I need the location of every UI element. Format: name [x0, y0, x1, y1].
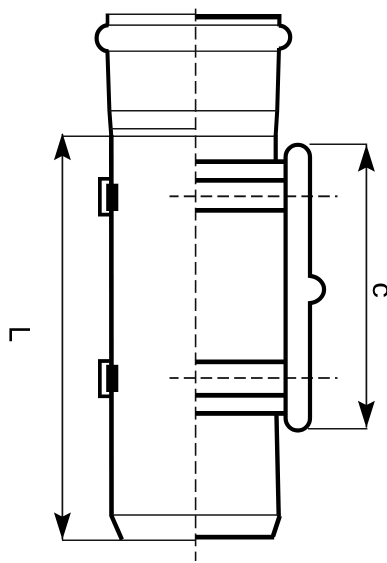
- clip body top: [106, 184, 118, 211]
- gasket ring bottom line: [108, 50, 278, 52]
- horizontal centerline lower (branch oval bottom radius): [170, 377, 338, 379]
- dimension c line: [365, 145, 367, 428]
- dimension L arrow top: [54, 133, 71, 160]
- pipe wall left: [109, 135, 114, 516]
- bottom face left (thin) + L bottom extension line: [62, 539, 196, 541]
- dimension c arrow top: [358, 145, 375, 172]
- socket mouth lip left: [106, 14, 110, 27]
- access cover (stadium with grip bump): [286, 145, 324, 431]
- bottom chamfer ring line: [111, 514, 278, 516]
- branch band 5 (socket bottom): [196, 393, 286, 398]
- clip body bottom: [106, 365, 118, 392]
- dimension L arrow bottom: [54, 512, 71, 539]
- socket interior line: [109, 110, 277, 112]
- socket mouth lip right step: [277, 14, 281, 26]
- branch band 6 (outer flange bottom): [196, 411, 286, 416]
- socket top edge left (thin): [107, 13, 196, 15]
- pipe wall right upper: [274, 135, 278, 162]
- label L: [9, 328, 30, 341]
- socket mouth inner line: [108, 24, 278, 26]
- spigot chamfer right: [273, 516, 280, 537]
- svg-text:c: c: [366, 282, 387, 298]
- socket top edge right (thick): [196, 14, 282, 19]
- spigot chamfer left: [111, 516, 122, 540]
- socket end line + L top extension line: [62, 135, 276, 137]
- dimension c arrow bottom: [358, 401, 375, 428]
- gasket bulge right: [279, 26, 290, 49]
- bottom face right (thick): [196, 535, 275, 540]
- socket wall left (tapered): [107, 51, 111, 137]
- pipe wall right lower: [276, 412, 278, 516]
- branch band 1 (outer flange top): [196, 159, 286, 164]
- branch band 4 (opening bottom): [196, 360, 286, 365]
- dimension c top extension line: [310, 143, 368, 145]
- dimension L line: [61, 134, 63, 540]
- clip bracket top: [100, 179, 110, 215]
- branch band 3 (opening top): [196, 208, 286, 213]
- socket wall right (tapered): [276, 48, 279, 137]
- socket depth line (left half): [110, 128, 196, 130]
- gasket bulge left: [97, 25, 109, 51]
- vertical centerline: [195, 9, 197, 561]
- branch band 2 (socket top): [196, 178, 286, 183]
- dimension c bottom extension line: [308, 428, 367, 430]
- horizontal centerline upper (branch oval top radius): [170, 195, 338, 197]
- clip bracket bottom: [100, 361, 110, 396]
